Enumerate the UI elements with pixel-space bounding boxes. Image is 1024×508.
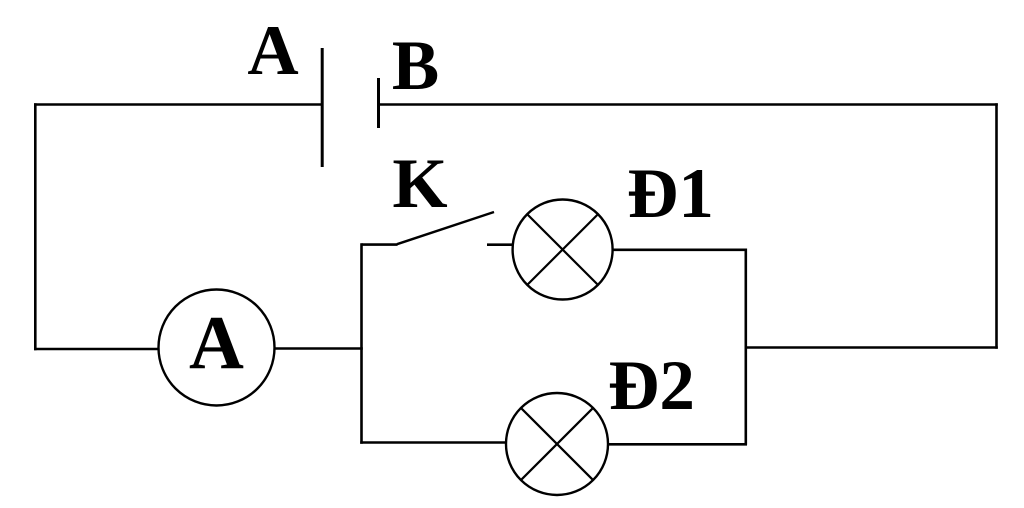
switch K fixed contact stub (487, 243, 513, 246)
battery plate A (long, positive) (321, 48, 324, 167)
wire left branch vertical (360, 243, 363, 443)
wire top-right horizontal (379, 103, 998, 106)
wire middle-right horizontal (746, 346, 998, 349)
wire D2 to right branch vertical (608, 443, 747, 446)
lamp D2 (506, 393, 608, 495)
wire right branch vertical (744, 249, 747, 445)
svg-text:A: A (189, 301, 244, 385)
lamp D1 (513, 200, 613, 300)
wire bottom horizontal to D2 (360, 441, 506, 444)
switch K left post (362, 243, 398, 246)
wire left vertical (34, 103, 37, 350)
battery plate B (short, negative) (377, 78, 380, 128)
svg-text:K: K (392, 145, 447, 223)
svg-text:Đ2: Đ2 (608, 347, 695, 425)
svg-text:A: A (247, 12, 298, 90)
wire right edge vertical (995, 103, 998, 349)
wire D1 to right branch vertical (613, 249, 748, 252)
wire top-left horizontal (34, 103, 322, 106)
svg-text:Đ1: Đ1 (627, 155, 714, 233)
ammeter A (159, 290, 275, 406)
svg-text:B: B (392, 27, 439, 105)
wire bottom-left horizontal (34, 348, 159, 351)
switch K arm (397, 212, 494, 244)
wire ammeter to left branch node (275, 347, 363, 350)
